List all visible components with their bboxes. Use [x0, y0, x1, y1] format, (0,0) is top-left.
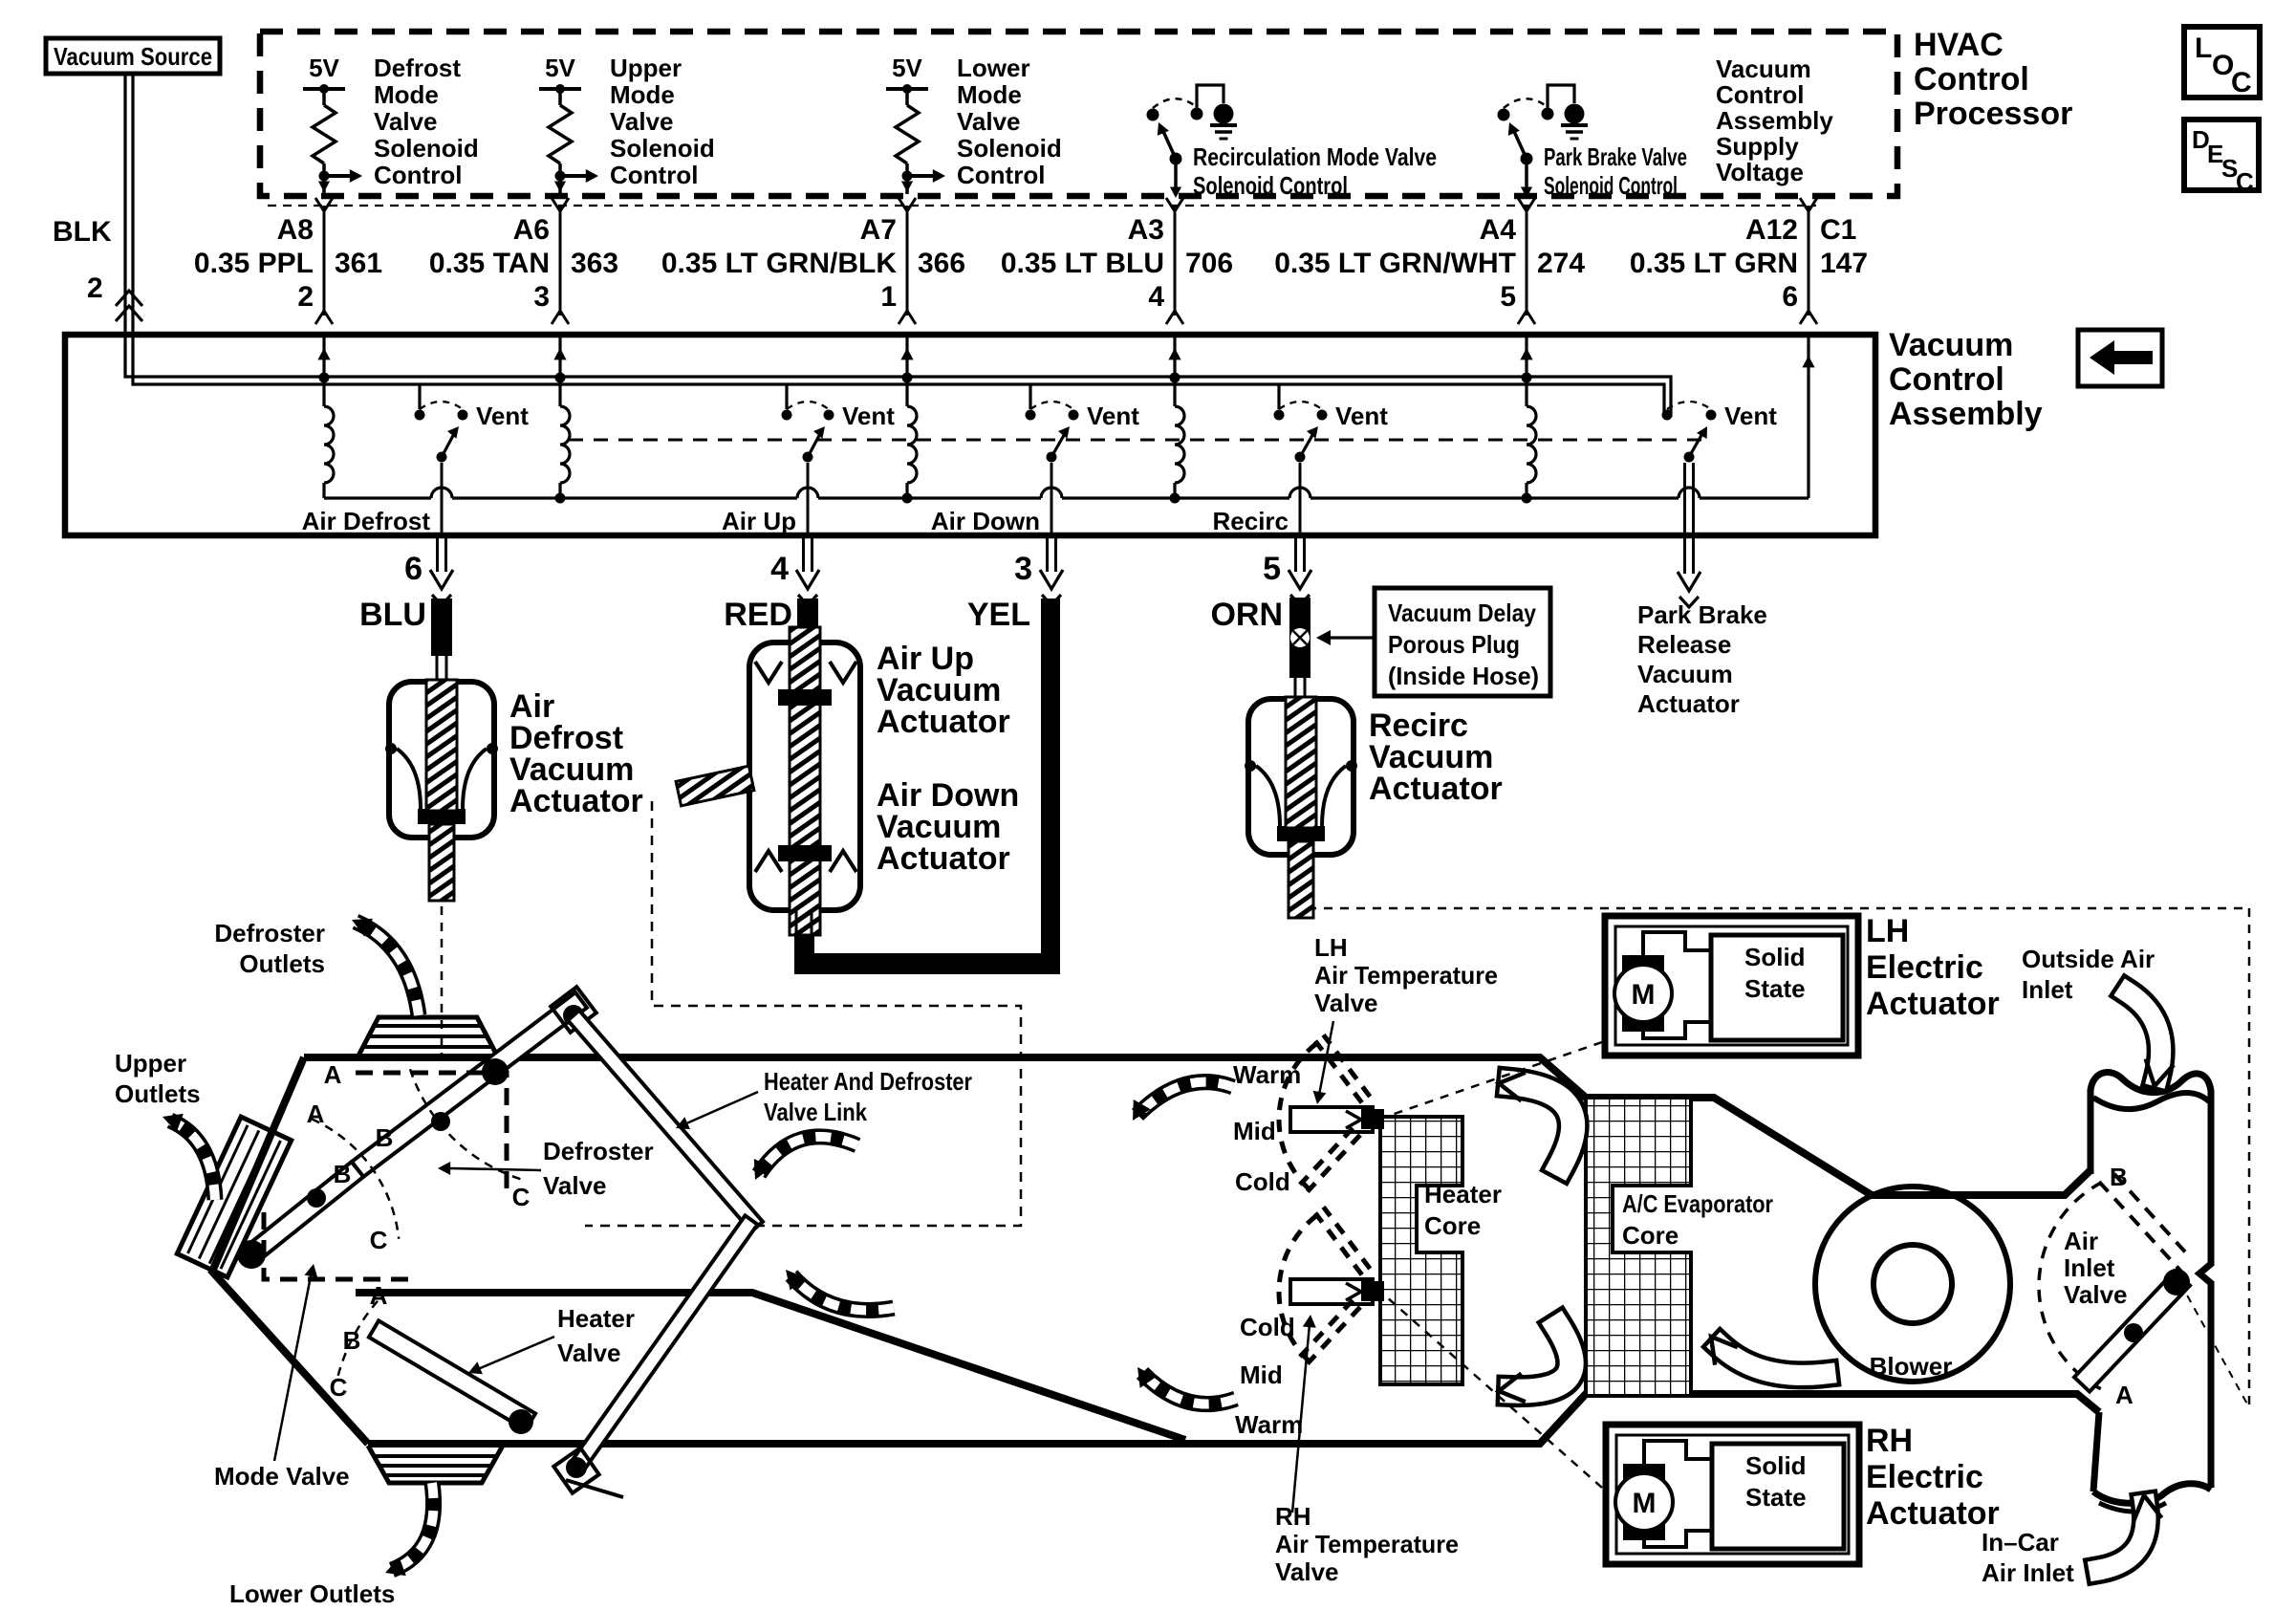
thick dashed valve position outline C — [264, 1212, 411, 1279]
svg-text:Heater: Heater — [557, 1304, 635, 1333]
svg-text:Heater And Defroster: Heater And Defroster — [764, 1067, 972, 1096]
switch lever — [437, 452, 447, 463]
svg-text:0.35 PPL: 0.35 PPL — [194, 248, 314, 279]
svg-text:Defroster: Defroster — [543, 1137, 654, 1165]
ground symbol — [1548, 85, 1574, 108]
wire pin entry x=949 — [905, 335, 908, 406]
duct inner wall — [356, 1293, 1185, 1440]
svg-text:Actuator: Actuator — [877, 704, 1010, 740]
air inlet valve plate B (dashed) — [2099, 1182, 2181, 1272]
vent contact — [824, 410, 834, 421]
arrow to porous plug — [1331, 636, 1375, 639]
svg-text:Solid: Solid — [1744, 943, 1806, 971]
svg-text:Vent: Vent — [1724, 402, 1777, 430]
wire to output port — [441, 463, 444, 533]
svg-text:Actuator: Actuator — [1369, 771, 1503, 807]
control output arrow — [324, 174, 351, 178]
svg-text:Valve: Valve — [1314, 989, 1378, 1017]
ground symbol — [1197, 85, 1224, 108]
svg-text:Solid: Solid — [1745, 1451, 1807, 1480]
svg-text:A6: A6 — [513, 214, 550, 246]
wire to output port — [1299, 463, 1302, 533]
mode valve bar — [246, 1162, 364, 1262]
control output arrow — [907, 174, 934, 178]
defroster outlets louver — [357, 1017, 498, 1057]
wire pin entry x=339 — [322, 335, 325, 406]
switch contacts — [1147, 109, 1159, 121]
port 3 arrow — [1046, 535, 1049, 572]
wire pin entry x=586 — [558, 335, 561, 406]
vacuum stub to switch contact — [1277, 384, 1280, 409]
svg-text:Vacuum Delay: Vacuum Delay — [1388, 599, 1536, 627]
svg-text:Solenoid Control: Solenoid Control — [1544, 171, 1678, 200]
svg-text:RH: RH — [1866, 1423, 1913, 1459]
solenoid coil — [1175, 406, 1184, 483]
actuator rod (hatched) — [1286, 697, 1316, 828]
valve link end pivot — [553, 1448, 598, 1492]
svg-text:1: 1 — [880, 281, 897, 313]
svg-text:147: 147 — [1820, 248, 1868, 279]
svg-text:Valve: Valve — [957, 107, 1021, 136]
motor — [1623, 1464, 1665, 1540]
svg-text:A4: A4 — [1480, 214, 1517, 246]
connector row dashed line — [268, 205, 1816, 207]
svg-text:Blower: Blower — [1870, 1352, 1953, 1381]
svg-text:Solenoid: Solenoid — [957, 134, 1062, 163]
dashed link LH actuator to valve — [1386, 1042, 1602, 1117]
in-car air inlet arrow — [2099, 1505, 2146, 1570]
svg-text:Defroster: Defroster — [214, 919, 325, 947]
svg-text:Assembly: Assembly — [1716, 106, 1833, 135]
temp door striped arrow upper — [1137, 1082, 1233, 1115]
wire to pin — [1525, 159, 1528, 195]
svg-text:Recirc: Recirc — [1213, 507, 1289, 535]
svg-text:Control: Control — [374, 161, 462, 189]
svg-text:LH: LH — [1314, 933, 1348, 962]
svg-text:0.35 LT GRN: 0.35 LT GRN — [1630, 248, 1798, 279]
svg-text:A: A — [2115, 1381, 2134, 1409]
svg-text:Upper: Upper — [115, 1049, 186, 1078]
vent contact park brake valve — [1662, 410, 1673, 421]
svg-text:Valve: Valve — [2064, 1280, 2128, 1309]
housing lower left edge — [2093, 1412, 2099, 1491]
actuator side pivots — [385, 743, 397, 754]
air inlet valve plate A (solid) — [2074, 1271, 2190, 1391]
svg-text:RED: RED — [724, 597, 792, 633]
pin A12 wire 0.35 LT GRN — [1808, 206, 1810, 316]
svg-text:A/C Evaporator: A/C Evaporator — [1622, 1189, 1773, 1218]
airflow outline arrow upper — [1512, 1083, 1573, 1165]
actuator collar — [1277, 826, 1325, 841]
svg-text:3: 3 — [1014, 551, 1032, 587]
svg-text:363: 363 — [571, 248, 618, 279]
svg-text:Inlet: Inlet — [2022, 975, 2073, 1004]
vacuum actuator body — [389, 682, 494, 838]
thick dashed valve position outline A — [356, 1073, 507, 1197]
duct outline bottom — [368, 1394, 2099, 1444]
svg-text:C: C — [370, 1226, 388, 1254]
wire to pin — [1174, 159, 1178, 195]
wire to output port — [1051, 463, 1053, 533]
wire pin A4 entry — [1525, 335, 1527, 406]
pin A3 wire 0.35 LT BLU — [1174, 206, 1177, 316]
svg-text:Warm: Warm — [1233, 1060, 1301, 1089]
svg-text:Actuator: Actuator — [1866, 986, 2000, 1022]
dashed link RH actuator to valve — [1386, 1296, 1602, 1488]
RH electric actuator box — [1606, 1425, 1859, 1564]
pin A7 wire 0.35 LT GRN/BLK — [906, 206, 909, 316]
actuator collar — [418, 809, 466, 824]
lower outlets arrow — [392, 1483, 434, 1570]
HVAC control processor box — [260, 32, 1897, 196]
wire common bus — [324, 496, 431, 499]
svg-text:Mode: Mode — [957, 80, 1022, 109]
air up / air down vacuum actuator — [749, 642, 860, 910]
svg-text:5V: 5V — [545, 54, 575, 82]
vacuum actuator body — [1248, 699, 1354, 855]
svg-text:B: B — [376, 1123, 394, 1152]
svg-text:Air Inlet: Air Inlet — [1982, 1558, 2074, 1587]
svg-text:Valve: Valve — [374, 107, 438, 136]
svg-text:4: 4 — [770, 551, 789, 587]
svg-text:A7: A7 — [860, 214, 897, 246]
svg-text:Air Down: Air Down — [931, 507, 1040, 535]
outside air inlet arrow — [2128, 992, 2161, 1077]
svg-text:C: C — [2236, 167, 2254, 196]
wire dashed defrost actuator link — [441, 906, 444, 1054]
svg-text:Cold: Cold — [1235, 1167, 1290, 1196]
upper outlets louver panel — [177, 1117, 291, 1277]
svg-text:4: 4 — [1148, 281, 1164, 313]
svg-text:In–Car: In–Car — [1982, 1528, 2059, 1557]
svg-text:5: 5 — [1263, 551, 1281, 587]
svg-text:Valve: Valve — [610, 107, 674, 136]
svg-text:Solenoid: Solenoid — [610, 134, 715, 163]
svg-text:0.35 LT BLU: 0.35 LT BLU — [1001, 248, 1164, 279]
pin A4 wire 0.35 LT GRN/WHT — [1526, 206, 1528, 316]
switch contacts — [1498, 109, 1510, 121]
vacuum control assembly box — [65, 335, 1875, 535]
svg-text:Cold: Cold — [1240, 1313, 1295, 1341]
solenoid coil — [324, 406, 334, 483]
svg-text:Actuator: Actuator — [877, 840, 1010, 877]
svg-text:Defrost: Defrost — [374, 54, 461, 82]
svg-text:B: B — [334, 1160, 352, 1188]
svg-text:Air Up: Air Up — [722, 507, 796, 535]
port park brake arrow — [1678, 572, 1700, 591]
svg-text:5V: 5V — [892, 54, 922, 82]
port 4 arrow — [802, 535, 805, 572]
switch lever park brake — [1684, 452, 1695, 463]
svg-text:Mid: Mid — [1240, 1361, 1283, 1389]
svg-text:706: 706 — [1185, 248, 1233, 279]
svg-text:B: B — [343, 1326, 361, 1355]
hose break chevrons — [116, 291, 142, 306]
svg-text:6: 6 — [404, 551, 422, 587]
svg-text:LH: LH — [1866, 913, 1909, 949]
svg-text:Vacuum: Vacuum — [1716, 54, 1811, 83]
wire pin entry x=1229 — [1173, 335, 1176, 406]
hose below air up actuator — [795, 910, 798, 934]
svg-text:A12: A12 — [1745, 214, 1798, 246]
svg-text:Outlets: Outlets — [239, 949, 325, 978]
LOC box — [2184, 27, 2260, 98]
motor — [1622, 955, 1664, 1032]
svg-text:A3: A3 — [1128, 214, 1164, 246]
svg-text:Heater: Heater — [1424, 1180, 1502, 1208]
actuator side pivots — [1245, 760, 1256, 772]
svg-text:274: 274 — [1537, 248, 1585, 279]
svg-text:M: M — [1633, 1488, 1657, 1519]
svg-text:0.35 LT GRN/WHT: 0.35 LT GRN/WHT — [1274, 248, 1516, 279]
svg-text:(Inside Hose): (Inside Hose) — [1388, 662, 1539, 690]
vacuum source box — [46, 38, 220, 74]
airflow outline arrow lower — [1512, 1327, 1571, 1391]
svg-text:State: State — [1745, 1483, 1807, 1512]
heater core grid — [1380, 1117, 1462, 1384]
svg-text:Mode Valve: Mode Valve — [214, 1462, 350, 1491]
svg-text:A8: A8 — [277, 214, 314, 246]
valve swing dashed fan — [1308, 1307, 1360, 1363]
duct striped arrow upper — [759, 1137, 857, 1174]
wire park brake output (double) — [1683, 463, 1686, 574]
port 5 arrow — [1294, 535, 1297, 572]
svg-text:Solenoid Control: Solenoid Control — [1193, 171, 1348, 200]
defroster outlets arrow — [356, 922, 419, 1015]
control output arrow — [560, 174, 587, 178]
svg-text:Solenoid: Solenoid — [374, 134, 479, 163]
heater valve leader — [478, 1337, 554, 1369]
svg-text:3: 3 — [533, 281, 550, 313]
svg-text:C: C — [330, 1373, 348, 1402]
vent contact — [1069, 410, 1079, 421]
mechanical link dashed line — [569, 439, 1709, 442]
wire vacuum source hose (double line) — [125, 74, 1671, 417]
svg-text:Release: Release — [1637, 630, 1731, 659]
solid state box — [1712, 1444, 1844, 1549]
solenoid coil — [907, 406, 917, 483]
svg-text:C: C — [2231, 67, 2252, 98]
svg-text:Actuator: Actuator — [509, 783, 643, 819]
actuator collars — [778, 689, 832, 706]
pin A8 wire 0.35 PPL — [323, 206, 326, 316]
duct striped arrow lower — [791, 1275, 894, 1310]
svg-text:Lower: Lower — [957, 54, 1030, 82]
svg-text:Upper: Upper — [610, 54, 682, 82]
housing top wavy opening — [2093, 1093, 2209, 1109]
svg-text:2: 2 — [297, 281, 314, 313]
svg-text:A: A — [370, 1281, 388, 1310]
svg-text:A: A — [324, 1060, 342, 1089]
svg-text:Valve: Valve — [557, 1339, 621, 1367]
heater and defroster valve link bar — [568, 1011, 763, 1231]
a/c evaporator core grid — [1586, 1098, 1691, 1396]
valve link leader — [684, 1092, 758, 1124]
svg-text:Core: Core — [1622, 1221, 1679, 1250]
solid state box — [1711, 935, 1843, 1040]
heater valve bar — [369, 1320, 535, 1429]
svg-text:Air Defrost: Air Defrost — [302, 507, 431, 535]
valve position dashed arcs — [410, 1069, 521, 1180]
air inlet valve dashed arc — [2039, 1183, 2101, 1388]
svg-text:Electric: Electric — [1866, 949, 1983, 986]
dashed link recirc actuator — [1308, 907, 2249, 910]
valve swing dashed fan — [1308, 1135, 1360, 1191]
svg-text:Mid: Mid — [1233, 1117, 1276, 1145]
svg-text:State: State — [1744, 974, 1806, 1003]
defroster valve pivot — [551, 987, 596, 1033]
svg-text:Electric: Electric — [1866, 1459, 1983, 1495]
svg-text:A: A — [307, 1099, 325, 1128]
upper outlets arrow — [170, 1121, 215, 1200]
wire C1 supply entry — [1807, 335, 1809, 498]
defroster valve bar — [352, 992, 587, 1177]
svg-text:Vent: Vent — [476, 402, 529, 430]
temp door striped arrow lower — [1142, 1373, 1236, 1404]
vacuum stub to switch contact — [1029, 384, 1031, 409]
svg-text:Vacuum: Vacuum — [1637, 660, 1733, 688]
svg-text:Inlet: Inlet — [2064, 1253, 2115, 1282]
svg-text:L: L — [2195, 33, 2212, 64]
vacuum delay porous plug box — [1375, 588, 1550, 696]
blower — [1815, 1186, 2010, 1382]
svg-text:Outlets: Outlets — [115, 1079, 201, 1108]
vent contact — [1317, 410, 1328, 421]
svg-text:Valve: Valve — [543, 1171, 607, 1200]
svg-text:Vent: Vent — [842, 402, 895, 430]
air temperature valve bar — [1290, 1279, 1373, 1304]
duct outline left — [212, 1057, 368, 1444]
actuator rod (hatched) — [790, 627, 820, 935]
LH electric actuator box — [1605, 916, 1858, 1056]
vacuum stub to switch contact — [785, 384, 788, 409]
svg-text:Actuator: Actuator — [1637, 689, 1740, 718]
svg-text:Outside Air: Outside Air — [2022, 945, 2155, 973]
dashed link from air up lever to valve link box — [585, 801, 1021, 1226]
svg-text:2: 2 — [87, 272, 103, 304]
svg-text:Mode: Mode — [374, 80, 439, 109]
svg-text:Air: Air — [2064, 1227, 2098, 1255]
svg-text:366: 366 — [918, 248, 965, 279]
switch lever — [1170, 153, 1182, 165]
switch lever — [803, 452, 813, 463]
airflow outline arrow at blower — [1721, 1346, 1826, 1375]
svg-text:Park Brake: Park Brake — [1637, 600, 1767, 629]
svg-text:Control: Control — [1914, 61, 2029, 98]
lower outlets louver — [368, 1446, 503, 1483]
wire to output port — [807, 463, 810, 533]
pin A6 wire 0.35 TAN — [559, 206, 562, 316]
svg-text:Lower Outlets: Lower Outlets — [229, 1579, 395, 1608]
svg-text:Warm: Warm — [1235, 1410, 1303, 1439]
svg-text:BLK: BLK — [53, 216, 112, 248]
svg-text:5V: 5V — [309, 54, 339, 82]
svg-text:Core: Core — [1424, 1211, 1481, 1240]
actuator side lever (hatched) — [676, 766, 754, 806]
svg-text:Control: Control — [957, 161, 1045, 189]
svg-text:Vent: Vent — [1335, 402, 1388, 430]
svg-text:Control: Control — [1716, 80, 1804, 109]
svg-text:Assembly: Assembly — [1889, 396, 2043, 432]
svg-text:ORN: ORN — [1210, 597, 1283, 633]
svg-text:5: 5 — [1500, 281, 1516, 313]
svg-text:Processor: Processor — [1914, 96, 2072, 132]
svg-text:Valve: Valve — [1275, 1557, 1339, 1586]
switch lever — [1295, 452, 1306, 463]
duct outline top — [304, 1057, 2090, 1195]
left arrow box — [2078, 330, 2162, 386]
solenoid coil — [560, 406, 570, 483]
motor wires — [1643, 932, 1711, 955]
svg-text:C1: C1 — [1820, 214, 1856, 246]
svg-text:Vacuum: Vacuum — [1889, 327, 2013, 363]
svg-text:Control: Control — [610, 161, 698, 189]
svg-text:Porous Plug: Porous Plug — [1388, 630, 1520, 659]
svg-text:Vent: Vent — [1087, 402, 1139, 430]
svg-text:Valve Link: Valve Link — [764, 1098, 867, 1126]
mode valve leader — [274, 1272, 312, 1461]
svg-text:Control: Control — [1889, 361, 2004, 398]
svg-text:M: M — [1632, 979, 1656, 1011]
svg-text:Recirculation Mode Valve: Recirculation Mode Valve — [1193, 142, 1437, 171]
defroster valve leader — [449, 1168, 541, 1170]
svg-text:Air Temperature: Air Temperature — [1314, 961, 1498, 990]
svg-text:6: 6 — [1782, 281, 1798, 313]
housing bottom wavy opening — [2093, 1484, 2211, 1504]
air inlet housing outline — [2090, 1072, 2211, 1488]
svg-text:C: C — [512, 1183, 531, 1211]
svg-text:Voltage: Voltage — [1716, 158, 1804, 186]
svg-text:0.35 TAN: 0.35 TAN — [429, 248, 550, 279]
svg-text:Air Temperature: Air Temperature — [1275, 1530, 1459, 1558]
port 6 arrow — [436, 535, 439, 572]
svg-text:Vacuum Source: Vacuum Source — [54, 42, 212, 71]
solenoid coil park brake valve — [1527, 406, 1536, 483]
svg-text:Actuator: Actuator — [1866, 1495, 2000, 1532]
actuator rod (hatched) — [426, 680, 457, 811]
svg-text:Park Brake Valve: Park Brake Valve — [1544, 142, 1687, 171]
vacuum stub to switch contact — [418, 384, 421, 409]
motor wires — [1644, 1441, 1712, 1464]
vent contact — [458, 410, 468, 421]
svg-text:Mode: Mode — [610, 80, 675, 109]
svg-text:YEL: YEL — [967, 597, 1030, 633]
svg-text:HVAC: HVAC — [1914, 27, 2004, 63]
air temperature valve bar — [1290, 1107, 1373, 1132]
svg-text:BLU: BLU — [359, 597, 426, 633]
DESC box — [2184, 120, 2259, 190]
switch lever — [1047, 452, 1057, 463]
svg-text:361: 361 — [335, 248, 382, 279]
switch lever — [1521, 153, 1533, 165]
svg-text:B: B — [2110, 1163, 2128, 1191]
svg-text:0.35 LT GRN/BLK: 0.35 LT GRN/BLK — [661, 248, 897, 279]
svg-text:Supply: Supply — [1716, 132, 1799, 161]
